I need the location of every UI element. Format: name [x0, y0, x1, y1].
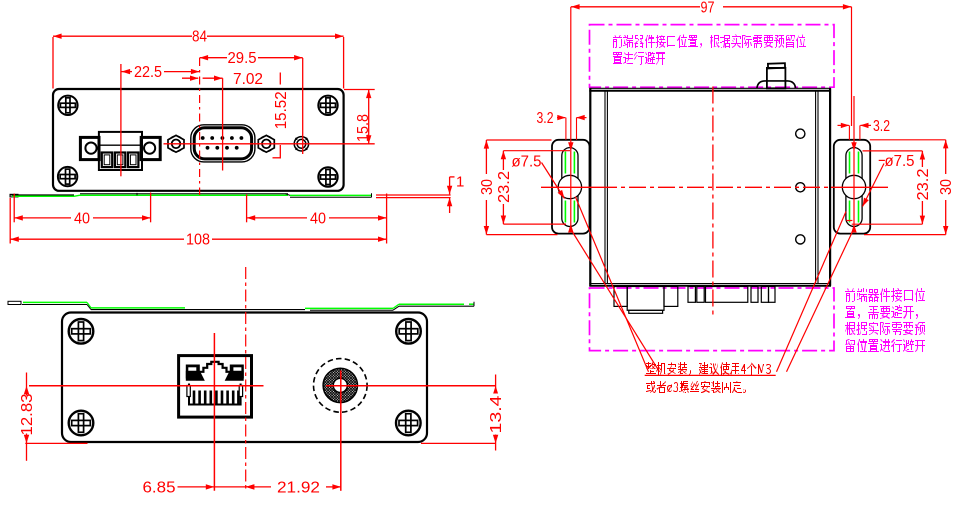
svg-text:40: 40	[74, 210, 90, 227]
mounting note red line 2	[646, 381, 746, 393]
svg-text:30: 30	[479, 179, 496, 195]
RJ45 vertical centerline	[213, 333, 215, 491]
top view body top edge	[589, 87, 831, 89]
svg-text:ø7.5: ø7.5	[512, 154, 542, 171]
slot arrows	[568, 142, 573, 151]
dim 97 line	[571, 6, 700, 8]
svg-text:40: 40	[310, 210, 326, 227]
svg-text:3.2: 3.2	[873, 118, 890, 135]
terminal block right ear	[141, 137, 160, 159]
power jack	[314, 359, 368, 413]
horizontal centerline through connectors	[164, 143, 375, 145]
terminal pin 1	[102, 153, 112, 168]
panel hole	[294, 137, 308, 151]
DB9 pins	[201, 136, 244, 150]
top view inner wall lines right	[815, 91, 817, 284]
note text right block line 1	[845, 288, 925, 302]
svg-text:15.8: 15.8	[355, 114, 372, 142]
dim 40 right line	[247, 217, 307, 219]
dim 1 bracket	[449, 177, 451, 195]
svg-text:97: 97	[701, 0, 715, 16]
top view body bottom edge	[589, 283, 831, 285]
top view horizontal centerline	[541, 186, 600, 188]
svg-text:108: 108	[186, 232, 210, 249]
dim 84 extension right	[343, 37, 345, 89]
left ear slot	[562, 148, 578, 227]
mounting leader lines	[575, 197, 648, 372]
svg-text:13.4: 13.4	[488, 395, 505, 433]
RJ45 jack	[179, 356, 252, 418]
note text top box line 1	[613, 34, 806, 48]
svg-text:12.83: 12.83	[19, 393, 36, 435]
power jack vertical centerline	[340, 371, 342, 491]
left slot bulge	[558, 175, 581, 198]
dim 22.5 line	[122, 71, 133, 73]
rear panel body	[62, 313, 427, 443]
dim 6.85 line	[178, 486, 252, 488]
svg-text:6.85: 6.85	[143, 479, 176, 496]
rear chassis vertical centerline (dash-dot)	[245, 267, 247, 491]
DB9 left jackscrew nut	[168, 135, 184, 152]
top view body right edge	[829, 88, 831, 286]
svg-text:22.5: 22.5	[134, 64, 162, 81]
bottom protrusion DB9 nuts right	[751, 287, 758, 303]
right slot centerline	[853, 96, 855, 231]
dim 29.5 line	[200, 57, 228, 59]
note text right block line 4	[845, 339, 925, 352]
svg-text:84: 84	[192, 29, 207, 46]
top view magenta keep-out box lower	[590, 288, 835, 351]
DB9 left edge centerline (dashed)	[199, 58, 201, 195]
dim 84 line	[53, 35, 192, 37]
note text right block line 2	[845, 305, 918, 319]
dim 108 line	[10, 238, 184, 240]
mounting note underline	[645, 374, 776, 376]
dim 84 extension left	[52, 37, 54, 89]
dim 23.2 left	[502, 151, 504, 224]
rear horizontal centerline	[29, 385, 264, 387]
dim 15.8	[344, 89, 375, 91]
DB9 vertical centerline	[222, 78, 224, 170]
dim 15.52 marks	[279, 73, 281, 85]
svg-text:ø7.5: ø7.5	[885, 153, 915, 170]
rear bottom extension line left	[25, 442, 87, 444]
top view magenta keep-out box upper	[590, 25, 835, 88]
svg-text:29.5: 29.5	[228, 50, 257, 67]
rear screw bottom-right	[396, 411, 421, 436]
dim 40 left extensions	[13, 194, 15, 223]
note text right block line 3	[845, 322, 925, 335]
mounting note red line 1	[646, 362, 771, 375]
front panel body	[53, 89, 344, 191]
dim 40 right extensions	[246, 195, 248, 223]
bottom protrusion DB9 nuts left	[688, 287, 695, 303]
top view inner wall lines left	[604, 91, 606, 284]
dim 40 left line	[14, 217, 71, 219]
base plate front view	[10, 193, 372, 197]
svg-text:3.2: 3.2	[537, 110, 554, 127]
svg-text:7.02: 7.02	[233, 71, 263, 88]
svg-text:15.52: 15.52	[273, 91, 290, 129]
bottom protrusion terminal block outline	[614, 287, 627, 307]
DB9 connector shell	[191, 125, 255, 162]
rear bottom extension line right	[421, 442, 496, 444]
hole extension line	[302, 58, 304, 154]
dim 30 left	[485, 140, 487, 235]
LED holes	[796, 129, 805, 138]
dim 97 extension / left slot centerline	[570, 7, 572, 227]
screw bottom-left	[58, 167, 77, 186]
screw top-left	[58, 96, 77, 115]
dim 108 extension	[9, 198, 11, 244]
dim 7.02 arrows	[182, 77, 198, 79]
terminal block left ear	[80, 137, 99, 159]
left mounting ear	[552, 140, 590, 234]
dim 97 extension right	[851, 7, 853, 126]
antenna connector base	[757, 81, 796, 88]
terminal block centerline	[120, 64, 122, 176]
terminal block body	[99, 132, 142, 170]
rear screw top-right	[396, 319, 421, 344]
rear screw bottom-left	[69, 411, 94, 436]
base plate rear view	[8, 301, 474, 310]
dim 30 right	[945, 140, 947, 235]
DB9 right jackscrew nut	[258, 135, 274, 152]
plate thickness leader lines	[376, 194, 451, 196]
right slot green highlights	[850, 152, 859, 223]
antenna connector body	[767, 68, 786, 88]
right mounting ear	[834, 140, 870, 234]
dim 21.92 line	[246, 486, 271, 488]
screw top-right	[318, 96, 337, 115]
top view body left edge	[589, 88, 591, 286]
right slot bulge	[842, 175, 865, 198]
svg-text:1: 1	[456, 174, 464, 191]
screw bottom-right	[318, 167, 337, 186]
svg-text:30: 30	[938, 179, 955, 195]
svg-text:23.2: 23.2	[496, 171, 513, 203]
svg-text:23.2: 23.2	[915, 168, 932, 200]
right ear slot	[846, 148, 862, 227]
dim 23.2 right	[921, 151, 923, 224]
bottom protrusion DB9 body	[706, 287, 748, 303]
dim 13.4 line	[495, 375, 497, 451]
dim diameter 7.5 right	[879, 159, 885, 161]
antenna connector cap	[768, 63, 785, 68]
top view vertical centerline	[712, 87, 714, 316]
svg-text:21.92: 21.92	[277, 479, 320, 496]
terminal pin 2	[115, 153, 125, 168]
rear screw top-left	[69, 319, 94, 344]
note text top box line 2	[613, 52, 665, 65]
dim 12.83 line	[26, 373, 28, 461]
left slot green highlights	[565, 152, 574, 223]
terminal pin 3	[128, 153, 138, 168]
